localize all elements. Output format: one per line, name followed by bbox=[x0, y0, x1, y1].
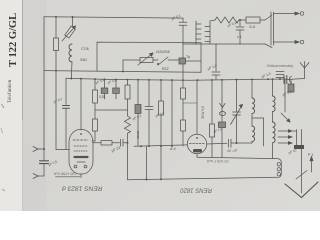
capacitor C14 series bbox=[283, 76, 285, 84]
capacitor C11 hatched bbox=[219, 122, 226, 128]
mains bottom wire bbox=[183, 43, 265, 45]
wire bbox=[94, 103, 96, 119]
svg-text:Telefunken: Telefunken bbox=[6, 79, 13, 103]
IF coil L2 bbox=[252, 98, 255, 114]
wire to plug bbox=[265, 15, 272, 20]
svg-text:130 V/50 mA: 130 V/50 mA bbox=[54, 172, 77, 177]
trimmer R1 bbox=[65, 26, 76, 38]
wire to antenna bbox=[287, 79, 305, 80]
resistor R6 bbox=[101, 141, 112, 145]
speaker terminal bbox=[277, 163, 280, 166]
electrolytic C17 bbox=[293, 130, 297, 132]
edge speck bbox=[2, 104, 5, 108]
svg-text:v 1: v 1 bbox=[237, 35, 242, 39]
tap arrow bbox=[278, 130, 290, 132]
wire zigzag to grid node bbox=[127, 133, 129, 142]
resistor R3 bbox=[93, 119, 98, 131]
wire bbox=[137, 145, 139, 147]
capacitor C7 bbox=[148, 80, 150, 106]
IF coil L5 bbox=[273, 122, 276, 143]
capacitor C13 bbox=[228, 139, 230, 147]
tube2 bottom lead bbox=[196, 154, 198, 158]
wire to bus3 bbox=[182, 131, 184, 146]
resistor R9 bbox=[181, 88, 186, 99]
svg-text:0,25: 0,25 bbox=[99, 95, 105, 99]
svg-text:µF 30: µF 30 bbox=[226, 149, 237, 153]
bus2 main wire bbox=[66, 78, 287, 80]
wire stub bbox=[183, 102, 197, 104]
capacitor C8 bbox=[179, 21, 187, 23]
node bus2 x104.5 bbox=[104, 78, 106, 80]
bus4 wire bbox=[128, 177, 278, 180]
wire bbox=[260, 19, 265, 21]
svg-text:RENS 1820: RENS 1820 bbox=[180, 187, 212, 193]
trimmer C12 bbox=[233, 111, 241, 113]
wire bbox=[153, 59, 158, 61]
wire bbox=[251, 114, 253, 126]
switch arc bbox=[289, 76, 291, 83]
svg-text:S.A: S.A bbox=[249, 25, 256, 29]
bus3 wire bbox=[134, 145, 187, 146]
cathode wire tube1 bbox=[56, 149, 70, 151]
tap arrow bbox=[278, 136, 290, 138]
tube U1 RENS1823d bbox=[69, 130, 93, 175]
svg-text:30 W 5,0: 30 W 5,0 bbox=[201, 106, 205, 119]
node bus3 x149 bbox=[148, 145, 150, 147]
antenna bbox=[304, 68, 306, 79]
left rail wire bbox=[43, 17, 45, 160]
wire to trimmer C12 bbox=[236, 80, 238, 112]
svg-text:50000: 50000 bbox=[136, 130, 140, 139]
node bus1 x123 bbox=[122, 71, 124, 73]
svg-text:P 1: P 1 bbox=[308, 153, 313, 157]
node bus2 x212 bbox=[211, 79, 213, 81]
top bus wire bbox=[44, 17, 183, 18]
grid wire tube1 bbox=[93, 142, 102, 144]
wire to IF coil bbox=[231, 142, 252, 144]
svg-text:Entbrummerwdstg: Entbrummerwdstg bbox=[267, 64, 293, 68]
tube1 bottom lead bbox=[80, 174, 82, 178]
svg-text:GS/GW: GS/GW bbox=[156, 49, 171, 54]
node switch bbox=[157, 63, 159, 65]
label underline bbox=[56, 176, 81, 178]
node bus2 x161 bbox=[160, 79, 162, 81]
heater comb 1 bbox=[195, 21, 197, 44]
left margin strip bbox=[0, 0, 22, 211]
resistor R5 zigzag bbox=[125, 116, 131, 133]
wire to anode line bbox=[211, 137, 213, 158]
svg-text:C7/8: C7/8 bbox=[81, 47, 89, 51]
arrow up P bbox=[311, 159, 313, 172]
resistor R10 bbox=[181, 120, 186, 131]
tube U2 RENS1820 bbox=[187, 134, 206, 153]
node bus2 x222 bbox=[221, 79, 223, 81]
junction bus1-x56 bbox=[55, 70, 57, 72]
wire bbox=[182, 64, 184, 88]
switch arm wire bbox=[284, 79, 286, 112]
capacitor C16 bbox=[276, 71, 284, 73]
arrow down bbox=[220, 103, 226, 107]
frame box bbox=[97, 42, 201, 72]
svg-text:70 V/5,7 mA: 70 V/5,7 mA bbox=[207, 159, 229, 164]
wire bbox=[148, 110, 150, 147]
IF tap vertical bbox=[263, 118, 265, 146]
node pickup bbox=[43, 148, 45, 150]
node top-R14 bbox=[55, 16, 57, 18]
wire bbox=[236, 115, 238, 143]
capacitor C3 hatched bbox=[104, 79, 106, 88]
ground V bbox=[285, 184, 302, 198]
wire x183 top bbox=[182, 18, 184, 22]
node bus2 x272.5 bbox=[272, 78, 274, 80]
speaker terminal bbox=[277, 168, 280, 171]
edge speck bbox=[2, 189, 5, 191]
wire to trimmer bbox=[72, 17, 74, 27]
node bus2 x268 bbox=[267, 78, 269, 80]
node bus4 x161 bbox=[160, 178, 162, 180]
switch diagonal bbox=[296, 171, 307, 180]
wire x212 bbox=[211, 80, 213, 124]
wire bbox=[112, 142, 120, 144]
wire to R14 bbox=[55, 17, 57, 38]
pickup terminal 1 bbox=[33, 147, 38, 150]
svg-text:T 122 G/GL: T 122 G/GL bbox=[8, 13, 19, 67]
capacitor C2 bbox=[63, 105, 70, 107]
heater comb 2 bbox=[209, 21, 211, 44]
wire node to zigzag bbox=[95, 109, 128, 111]
node bus2 left bbox=[70, 77, 72, 79]
node R11-C9 bbox=[239, 19, 241, 21]
node bus2 x280 bbox=[279, 78, 281, 80]
wire comb to R11 bbox=[210, 20, 215, 21]
wire bbox=[182, 25, 184, 58]
wire bbox=[123, 142, 128, 144]
potentiometer R22 bbox=[140, 58, 153, 63]
wire bbox=[239, 19, 246, 21]
node bus3 x172 bbox=[171, 145, 173, 147]
edge speck bbox=[1, 128, 3, 133]
left rail wire lower bbox=[43, 164, 45, 176]
resistor R14 bbox=[54, 38, 59, 51]
wire bbox=[182, 99, 184, 120]
wire to plug lower bbox=[265, 44, 272, 48]
anode line bbox=[197, 157, 281, 177]
resistor R4 bbox=[127, 80, 129, 85]
resistor R12 bbox=[210, 124, 215, 137]
node bus2 x197.5 bbox=[197, 79, 199, 81]
node bus2 x138 bbox=[137, 79, 139, 81]
wire L5 down bbox=[272, 143, 274, 159]
wire to frame edge bbox=[186, 60, 202, 62]
capacitor Tp hatched bbox=[179, 58, 186, 64]
capacitor C15 hatched bbox=[290, 79, 292, 84]
wire to tube2 top bbox=[196, 80, 198, 134]
wire bus3 to bus4 bbox=[146, 146, 148, 179]
node bus2 x172 bbox=[171, 79, 173, 81]
switch arm arrow bbox=[281, 113, 290, 122]
node trimmer-anode wire bbox=[236, 142, 238, 144]
pickup terminal 2 bbox=[33, 174, 38, 177]
capacitor C10 bbox=[215, 44, 217, 71]
speaker terminal bbox=[277, 173, 280, 176]
wire coil to bus2 bbox=[70, 62, 73, 78]
svg-text:Tp: Tp bbox=[186, 55, 190, 59]
wire x222 bbox=[221, 80, 223, 122]
wire x66 bbox=[65, 78, 67, 104]
capacitor C6 hatched bbox=[137, 80, 139, 105]
wire pot drop bbox=[122, 60, 124, 71]
svg-text:R22: R22 bbox=[162, 67, 169, 71]
wire R14 to cathode line bbox=[55, 51, 57, 150]
margin separator line bbox=[22, 0, 24, 120]
resistor R11 zigzag bbox=[215, 17, 239, 23]
wire bbox=[239, 30, 241, 44]
capacitor C5 bbox=[120, 139, 122, 146]
wire x172 bbox=[171, 80, 173, 146]
resistor R7 bbox=[160, 80, 162, 101]
coil L1 bbox=[69, 44, 72, 62]
wire bbox=[272, 112, 274, 122]
right vertical wire bbox=[301, 149, 303, 193]
wire to bus4 bbox=[127, 143, 129, 180]
wire x95 bbox=[94, 79, 96, 90]
fuse S.A bbox=[246, 17, 260, 23]
svg-text:A 4: A 4 bbox=[169, 147, 176, 151]
IF tap wire bbox=[252, 117, 264, 119]
node top-trimmer bbox=[72, 16, 74, 18]
paper shading band bbox=[23, 0, 47, 211]
anode wire tube2 bbox=[207, 142, 227, 145]
node bus3 x161 bbox=[160, 145, 162, 147]
capacitor C4 hatched bbox=[115, 80, 117, 88]
node bus2 x81 bbox=[80, 78, 82, 80]
wire bbox=[168, 59, 179, 61]
svg-text:0/81: 0/81 bbox=[80, 58, 87, 62]
bus1 wire bbox=[44, 71, 201, 73]
tap arrow bbox=[278, 142, 290, 144]
connector bbox=[220, 111, 226, 116]
resistor R2 bbox=[93, 90, 98, 103]
node bus3 x141 bbox=[140, 145, 142, 147]
wire C2 to cathode line bbox=[65, 108, 67, 149]
svg-text:RENS 1823 d: RENS 1823 d bbox=[62, 185, 103, 192]
capacitor C-pickup bbox=[40, 160, 49, 162]
node bus2 x116 bbox=[115, 79, 117, 81]
wire bbox=[251, 141, 253, 143]
wire to pot bbox=[123, 59, 140, 61]
capacitor C9 bbox=[239, 20, 241, 26]
node bus2 x183 bbox=[182, 79, 184, 81]
wire to tube1 bbox=[92, 140, 95, 142]
wire bbox=[94, 131, 96, 141]
wire bbox=[221, 128, 223, 158]
switch contact bbox=[158, 57, 168, 65]
wire to L2 bbox=[251, 79, 253, 98]
node bus2 x236.5 bbox=[236, 79, 238, 81]
wire to L4 bbox=[272, 79, 274, 96]
wire to tube1 grid cap bbox=[80, 79, 82, 130]
node bus2 x252 bbox=[251, 78, 253, 80]
node bus2 x127.5 bbox=[127, 79, 129, 81]
mains plug bbox=[270, 12, 272, 45]
node bus2 x149 bbox=[148, 79, 150, 81]
node bus2 x95 bbox=[94, 78, 96, 80]
node grid junction bbox=[127, 142, 129, 144]
IF coil L3 bbox=[252, 126, 255, 142]
IF coil L4 bbox=[273, 96, 276, 112]
node bus4 x146.5 bbox=[146, 178, 148, 180]
